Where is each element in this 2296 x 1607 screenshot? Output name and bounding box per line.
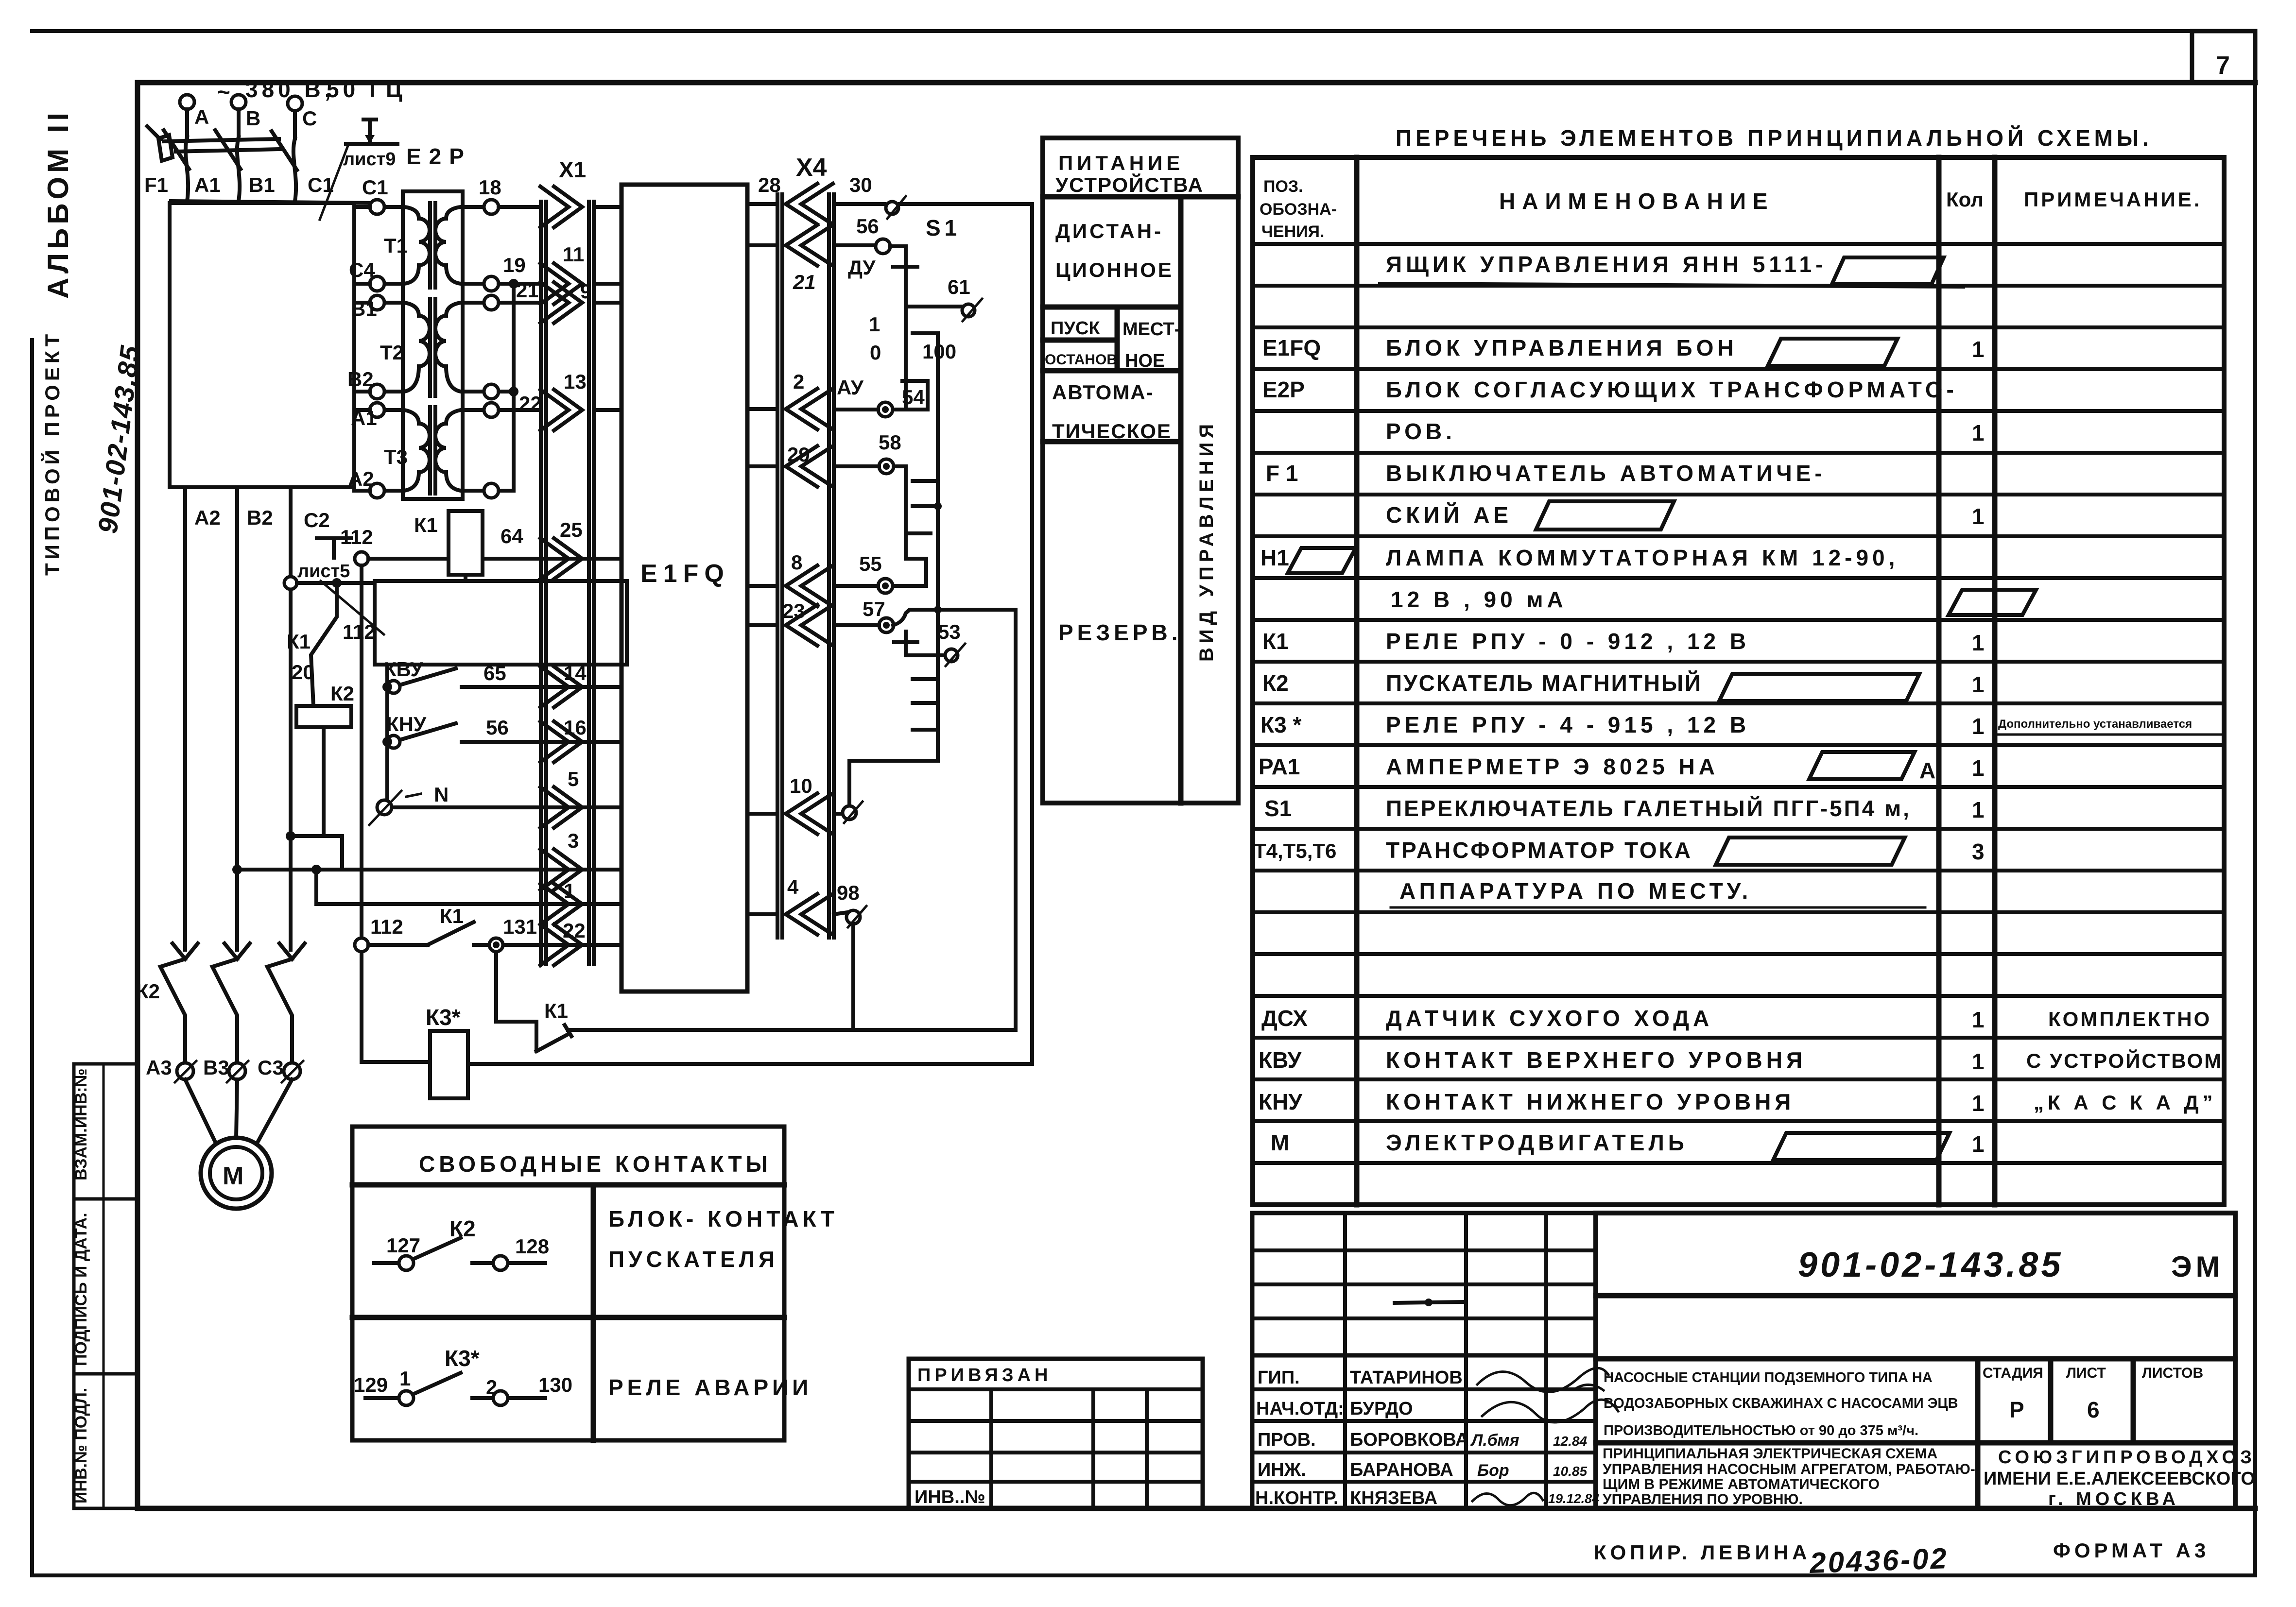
fuse C3 — [258, 1056, 303, 1082]
svg-text:ПЕРЕКЛЮЧАТЕЛЬ ГАЛЕТНЫЙ ПГГ-5: ПЕРЕКЛЮЧАТЕЛЬ ГАЛЕТНЫЙ ПГГ-5П4 м, — [1386, 796, 1911, 821]
revision table privyazan — [909, 1359, 1203, 1508]
row kvu — [1259, 1047, 2223, 1074]
contactor K2 pole B — [212, 943, 250, 1064]
svg-text:Т3: Т3 — [384, 445, 408, 468]
svg-text:КВУ: КВУ — [1259, 1047, 1302, 1073]
contactor K2 pole A — [160, 943, 198, 1064]
breaker F1 bar — [147, 126, 280, 161]
svg-text:г. МОСКВА: г. МОСКВА — [2048, 1489, 2179, 1509]
wire N — [369, 783, 594, 825]
svg-text:Кол: Кол — [1946, 188, 1984, 211]
wire AU contact — [834, 376, 928, 417]
svg-text:ОСТАНОВ: ОСТАНОВ — [1045, 352, 1117, 368]
svg-text:ПРОВ.: ПРОВ. — [1258, 1430, 1316, 1450]
terminal A — [180, 95, 209, 137]
node A1 — [351, 403, 384, 429]
svg-text:29: 29 — [787, 443, 810, 466]
svg-text:АЛЬБОМ II: АЛЬБОМ II — [42, 109, 74, 299]
svg-text:23: 23 — [782, 599, 805, 622]
node A2sec — [484, 483, 499, 498]
X4 pin arrow 23 — [747, 599, 833, 646]
row f1 line1 — [1266, 461, 1826, 486]
X4 pin arrow 8 — [747, 551, 833, 606]
svg-text:А2: А2 — [348, 467, 374, 490]
wire A2out feed — [354, 489, 370, 493]
svg-text:64: 64 — [501, 525, 523, 547]
contact K1 bottom — [496, 999, 1016, 1051]
svg-text:8: 8 — [791, 551, 802, 574]
svg-text:КНЯЗЕВА: КНЯЗЕВА — [1350, 1488, 1437, 1508]
stamp box Inv.N podl — [72, 1374, 138, 1508]
row s1 — [1264, 796, 1985, 822]
X1 pin arrow 18row — [540, 187, 621, 227]
svg-text:К2: К2 — [330, 682, 354, 705]
perechen header texts — [1260, 177, 2202, 241]
svg-text:ИНВ.№ ПОДЛ.: ИНВ.№ ПОДЛ. — [72, 1388, 90, 1504]
svg-text:БЛОК УПРАВЛЕНИЯ БОН: БЛОК УПРАВЛЕНИЯ БОН — [1386, 335, 1738, 360]
svg-text:Т4,Т5,Т6: Т4,Т5,Т6 — [1254, 839, 1336, 862]
svg-text:В1: В1 — [249, 173, 275, 196]
svg-text:ВЫКЛЮЧАТЕЛЬ АВТОМАТИЧЕ-: ВЫКЛЮЧАТЕЛЬ АВТОМАТИЧЕ- — [1386, 461, 1826, 486]
X4 pin arrow 29 — [747, 443, 833, 487]
svg-text:ДСХ: ДСХ — [1261, 1006, 1308, 1031]
svg-text:КОНТАКТ ВЕРХНЕГО УРОВНЯ: КОНТАКТ ВЕРХНЕГО УРОВНЯ — [1386, 1047, 1806, 1073]
svg-text:1: 1 — [1972, 337, 1985, 362]
svg-text:К3 *: К3 * — [1260, 712, 1301, 737]
X4 pin arrow 2 — [747, 370, 833, 429]
svg-text:ТАТАРИНОВ: ТАТАРИНОВ — [1350, 1368, 1463, 1388]
row apparatura — [1391, 878, 1925, 912]
svg-text:ЦИОННОЕ: ЦИОННОЕ — [1055, 258, 1174, 281]
X1 pin arrow 25 — [540, 518, 621, 579]
svg-text:ОБОЗНА-: ОБОЗНА- — [1260, 200, 1337, 219]
wire K2 coil to C2 — [291, 727, 342, 870]
stamp box Podpis i data — [72, 1199, 138, 1374]
fuse B3 — [203, 1056, 248, 1082]
svg-text:ВОДОЗАБОРНЫХ СКВАЖИНАХ С НАСОС: ВОДОЗАБОРНЫХ СКВАЖИНАХ С НАСОСАМИ ЭЦВ — [1604, 1396, 1958, 1411]
svg-text:19.12.84: 19.12.84 — [1548, 1491, 1599, 1506]
svg-text:С УСТРОЙСТВОМ: С УСТРОЙСТВОМ — [2026, 1049, 2223, 1072]
X4 pin arrow 4 — [747, 875, 833, 935]
motor M — [201, 1138, 272, 1209]
contact KNU wire 56 — [382, 713, 594, 748]
svg-text:11: 11 — [563, 243, 584, 266]
svg-text:БЛОК- КОНТАКТ: БЛОК- КОНТАКТ — [608, 1206, 838, 1231]
svg-text:Н.КОНТР.: Н.КОНТР. — [1255, 1488, 1339, 1508]
relay coil K1 — [414, 511, 483, 575]
svg-text:ЛАМПА КОММУТАТОРНАЯ КМ 12-90: ЛАМПА КОММУТАТОРНАЯ КМ 12-90, — [1386, 545, 1899, 570]
svg-text:КОМПЛЕКТНО: КОМПЛЕКТНО — [2048, 1008, 2211, 1030]
svg-text:20: 20 — [292, 661, 314, 684]
titleblock signature rows — [1252, 1355, 1599, 1508]
svg-text:ЭМ: ЭМ — [2171, 1250, 2224, 1283]
svg-text:„К А С К А Д”: „К А С К А Д” — [2034, 1091, 2217, 1114]
X1 pin arrow 16 — [540, 716, 621, 762]
svg-text:7: 7 — [2216, 51, 2230, 80]
svg-text:Н1: Н1 — [1260, 545, 1289, 570]
contact K1 20 — [287, 583, 337, 706]
wire 1 row — [316, 870, 594, 904]
list5 mark — [297, 538, 384, 634]
motor leads — [185, 1079, 292, 1144]
svg-text:Х1: Х1 — [559, 157, 586, 182]
perechen grid — [1253, 157, 2224, 1205]
svg-text:0: 0 — [870, 341, 881, 364]
svg-text:КНУ: КНУ — [386, 713, 427, 735]
svg-text:К2: К2 — [136, 980, 160, 1003]
node C4 — [349, 258, 384, 291]
svg-text:ЛИСТ: ЛИСТ — [2066, 1365, 2106, 1381]
svg-text:ЩИМ В РЕЖИМЕ АВТОМАТИЧЕСКОГО: ЩИМ В РЕЖИМЕ АВТОМАТИЧЕСКОГО — [1603, 1476, 1880, 1492]
svg-text:ИНВ..№: ИНВ..№ — [915, 1487, 985, 1507]
svg-text:Т1: Т1 — [384, 234, 408, 257]
svg-text:К1: К1 — [440, 905, 464, 927]
svg-text:СТАДИЯ: СТАДИЯ — [1983, 1365, 2043, 1381]
svg-text:9: 9 — [580, 280, 591, 303]
svg-text:25: 25 — [560, 518, 583, 541]
svg-text:В2: В2 — [247, 506, 273, 529]
wire C4 feed — [354, 282, 370, 286]
contact K2 127 128 — [374, 1216, 549, 1270]
svg-text:2: 2 — [793, 370, 804, 393]
svg-text:Т2: Т2 — [380, 341, 404, 364]
svg-text:А2: А2 — [194, 506, 221, 529]
row t456 — [1254, 838, 1985, 865]
wire 30 — [834, 173, 1032, 219]
svg-text:УСТРОЙСТВА: УСТРОЙСТВА — [1055, 173, 1204, 196]
svg-text:КНУ: КНУ — [1259, 1089, 1303, 1114]
svg-text:130: 130 — [538, 1373, 572, 1396]
row h1 line2 — [1391, 587, 2036, 615]
svg-text:Е2Р: Е2Р — [1262, 377, 1305, 402]
svg-text:ТИПОВОЙ ПРОЕКТ: ТИПОВОЙ ПРОЕКТ — [40, 330, 64, 576]
svg-text:ТИЧЕСКОЕ: ТИЧЕСКОЕ — [1052, 420, 1172, 443]
terminal B — [231, 95, 260, 137]
node A2out — [348, 467, 384, 498]
svg-text:ПУСКАТЕЛЬ МАГНИТНЫЙ: ПУСКАТЕЛЬ МАГНИТНЫЙ — [1386, 670, 1702, 696]
X1 pin arrow 11 — [540, 243, 621, 304]
block list5 — [375, 581, 627, 665]
svg-text:4: 4 — [787, 875, 799, 898]
svg-text:98: 98 — [837, 881, 860, 904]
wire A2 link — [499, 489, 512, 493]
svg-text:5: 5 — [568, 768, 579, 790]
bracket 54 — [902, 381, 928, 409]
node B2 — [347, 368, 384, 399]
svg-text:С: С — [302, 107, 317, 130]
node A1sec — [484, 403, 499, 417]
X1 pin arrow 14 — [540, 662, 621, 707]
row e1fq — [1262, 335, 1985, 366]
svg-text:К1: К1 — [414, 513, 438, 536]
stamp box Vzam.inv.N — [72, 1064, 138, 1199]
svg-text:F1: F1 — [144, 173, 168, 196]
svg-text:ПРИМЕЧАНИЕ.: ПРИМЕЧАНИЕ. — [2024, 188, 2202, 211]
transformer T2 — [380, 299, 484, 396]
contact KVU wire 65 — [382, 658, 594, 693]
svg-text:50 ГЦ: 50 ГЦ — [327, 77, 406, 102]
ladder dash c — [913, 502, 942, 510]
svg-text:К1: К1 — [1262, 629, 1289, 654]
relay coil K3 — [426, 1005, 468, 1098]
svg-text:56: 56 — [856, 215, 879, 238]
wire loop return — [1014, 1029, 1018, 1030]
svg-text:53: 53 — [938, 620, 961, 643]
link secondary chain vertical — [512, 284, 516, 491]
svg-text:28: 28 — [758, 173, 781, 196]
svg-text:16: 16 — [564, 716, 587, 739]
row e2p line2 — [1386, 419, 1985, 445]
list9 mark — [320, 120, 397, 220]
svg-text:~: ~ — [217, 79, 230, 104]
node 98 — [834, 881, 866, 927]
wire 57 bus drop — [1014, 610, 1018, 1029]
svg-text:1: 1 — [1972, 1049, 1985, 1074]
pitanie table — [1043, 138, 1238, 803]
svg-text:РОВ.: РОВ. — [1386, 419, 1456, 444]
svg-text:1: 1 — [1972, 714, 1985, 739]
X1 pin arrow 22 — [540, 919, 621, 965]
svg-text:21: 21 — [793, 271, 816, 293]
row yashchik — [1380, 252, 1963, 287]
svg-text:В2: В2 — [347, 368, 374, 391]
svg-text:3: 3 — [1972, 839, 1985, 864]
svg-text:В: В — [246, 107, 260, 130]
svg-text:61: 61 — [948, 275, 970, 298]
svg-text:1: 1 — [1972, 1007, 1985, 1032]
svg-text:РЕЗЕРВ.: РЕЗЕРВ. — [1058, 620, 1182, 645]
svg-text:ЭЛЕКТРОДВИГАТЕЛЬ: ЭЛЕКТРОДВИГАТЕЛЬ — [1386, 1130, 1688, 1155]
transformer T3 — [384, 407, 484, 494]
svg-text:А: А — [1919, 758, 1935, 783]
svg-text:ДУ: ДУ — [848, 256, 876, 279]
wire C2 to block — [284, 577, 376, 643]
svg-text:ПРИВЯЗАН: ПРИВЯЗАН — [917, 1365, 1052, 1385]
ladder step — [849, 761, 938, 806]
wire C1 feed — [354, 205, 370, 209]
svg-text:С3: С3 — [258, 1056, 284, 1079]
ladder dash d — [909, 531, 931, 535]
svg-text:Л.бмя: Л.бмя — [1470, 1431, 1519, 1450]
svg-text:ПОДПИСЬ И ДАТА.: ПОДПИСЬ И ДАТА. — [72, 1213, 90, 1366]
svg-text:22: 22 — [563, 919, 586, 942]
svg-text:ПУСКАТЕЛЯ: ПУСКАТЕЛЯ — [608, 1247, 778, 1272]
contactor K2 pole C — [267, 943, 305, 1064]
X1 pin arrow 5 — [540, 768, 621, 828]
svg-text:РЕЛЕ РПУ - 4 - 915 , 12 В: РЕЛЕ РПУ - 4 - 915 , 12 В — [1386, 712, 1750, 737]
svg-text:Бор: Бор — [1477, 1461, 1509, 1480]
svg-text:СКИЙ АЕ: СКИЙ АЕ — [1386, 502, 1512, 528]
node B1 — [351, 295, 384, 320]
wire 3 row — [237, 868, 594, 872]
svg-text:ПУСК: ПУСК — [1051, 318, 1100, 339]
svg-text:К3*: К3* — [445, 1346, 480, 1371]
wire 57 contact — [834, 598, 1016, 633]
connector X1 rails — [541, 157, 594, 964]
row knu — [1259, 1089, 2217, 1116]
X4 pin arrow 28 — [747, 173, 833, 224]
svg-text:13: 13 — [564, 370, 587, 393]
wire B2 drop — [235, 487, 239, 950]
svg-text:128: 128 — [515, 1235, 549, 1258]
row k2 — [1262, 670, 1985, 701]
svg-text:УПРАВЛЕНИЯ ПО УРОВНЮ.: УПРАВЛЕНИЯ ПО УРОВНЮ. — [1603, 1491, 1803, 1507]
svg-text:МЕСТ-: МЕСТ- — [1122, 319, 1180, 340]
fuse A3 — [146, 1056, 196, 1082]
svg-text:58: 58 — [879, 431, 901, 454]
row f1 line2 — [1386, 501, 1985, 530]
row k3 — [1260, 712, 2221, 739]
X1 pin arrow 3 — [540, 829, 621, 890]
wire 58 contact — [834, 431, 926, 586]
svg-text:Е1FQ: Е1FQ — [640, 560, 730, 588]
block E2P — [403, 191, 463, 499]
contact K3 129 130 — [354, 1346, 572, 1405]
svg-text:НОЕ: НОЕ — [1125, 351, 1165, 371]
X1 pin arrow 13 — [540, 370, 621, 430]
row pa1 — [1259, 752, 1985, 783]
ladder dash b — [913, 479, 934, 483]
svg-text:3: 3 — [568, 829, 579, 852]
node 21sec — [484, 279, 539, 310]
svg-text:N: N — [434, 783, 449, 806]
svg-text:1: 1 — [399, 1367, 411, 1390]
row motor — [1271, 1130, 1985, 1160]
svg-text:ИМЕНИ Е.Е.АЛЕКСЕЕВСКОГО: ИМЕНИ Е.Е.АЛЕКСЕЕВСКОГО — [1984, 1469, 2255, 1489]
svg-text:1: 1 — [1972, 1131, 1985, 1157]
svg-text:СОЮЗГИПРОВОДХОЗ: СОЮЗГИПРОВОДХОЗ — [1998, 1447, 2256, 1468]
svg-text:ИНЖ.: ИНЖ. — [1258, 1460, 1306, 1480]
wire 22 link — [499, 390, 514, 393]
node 19 — [484, 254, 526, 291]
svg-text:10.85: 10.85 — [1553, 1464, 1587, 1479]
svg-text:С1: С1 — [362, 176, 388, 199]
wire 55 contact — [834, 552, 926, 593]
svg-text:F 1: F 1 — [1266, 461, 1298, 486]
svg-text:1: 1 — [564, 879, 575, 902]
svg-text:ЯЩИК УПРАВЛЕНИЯ ЯНН 5111-: ЯЩИК УПРАВЛЕНИЯ ЯНН 5111- — [1386, 252, 1827, 277]
svg-text:1: 1 — [1972, 1091, 1985, 1116]
svg-text:54: 54 — [902, 386, 925, 409]
wire 131 drop — [494, 952, 498, 1022]
svg-text:57: 57 — [863, 598, 885, 620]
svg-text:1: 1 — [1972, 420, 1985, 445]
K1 coil stub — [464, 575, 467, 581]
svg-text:Е1FQ: Е1FQ — [1262, 335, 1321, 360]
svg-text:ПЕРЕЧЕНЬ ЭЛЕМЕНТОВ ПРИНЦИПИА: ПЕРЕЧЕНЬ ЭЛЕМЕНТОВ ПРИНЦИПИАЛЬНОЙ СХЕМЫ. — [1396, 125, 2153, 151]
svg-text:ЧЕНИЯ.: ЧЕНИЯ. — [1261, 222, 1324, 241]
stadiya list listov — [1983, 1365, 2203, 1422]
node 18 — [479, 176, 501, 214]
ladder dash g — [913, 728, 934, 732]
label DU — [848, 256, 917, 279]
sheet description — [1603, 1446, 1975, 1507]
object description — [1604, 1370, 1958, 1438]
wire 19 to X1 — [499, 282, 541, 286]
wire B1 feed — [354, 301, 370, 305]
svg-text:РЕЛЕ РПУ - 0 - 912 , 12 В: РЕЛЕ РПУ - 0 - 912 , 12 В — [1386, 629, 1750, 654]
ladder rail — [936, 333, 940, 761]
svg-text:КОПИР. ЛЕВИНА: КОПИР. ЛЕВИНА — [1594, 1541, 1811, 1564]
wire to K3 coil — [362, 1062, 1032, 1064]
svg-text:К1: К1 — [287, 630, 311, 653]
bus under F1 — [171, 201, 377, 203]
titleblock main box — [1596, 1213, 2235, 1508]
svg-text:129: 129 — [354, 1373, 388, 1396]
svg-text:ЛИСТОВ: ЛИСТОВ — [2142, 1365, 2203, 1381]
svg-text:1: 1 — [1972, 755, 1985, 781]
wire 112 to K1 coil — [340, 526, 449, 565]
svg-text:лист5: лист5 — [297, 561, 350, 581]
svg-text:А: А — [194, 105, 209, 128]
svg-text:ПРИНЦИПИАЛЬНАЯ ЭЛЕКТРИЧЕСКАЯ С: ПРИНЦИПИАЛЬНАЯ ЭЛЕКТРИЧЕСКАЯ СХЕМА — [1603, 1446, 1937, 1462]
X1 pin arrow 9 — [540, 280, 621, 323]
big switchgear box — [170, 203, 354, 487]
svg-text:С4: С4 — [349, 258, 375, 281]
svg-text:65: 65 — [483, 662, 506, 684]
sheet number box 7 — [2192, 31, 2255, 83]
wire A1 feed — [354, 408, 370, 412]
svg-text:S1: S1 — [926, 215, 961, 240]
svg-text:10: 10 — [790, 774, 812, 797]
wire 18 to X1 — [499, 205, 541, 209]
svg-text:БОРОВКОВА: БОРОВКОВА — [1350, 1430, 1468, 1450]
node 53 — [894, 620, 965, 666]
node 22sec — [484, 384, 542, 415]
svg-text:112: 112 — [370, 915, 403, 938]
svg-text:6: 6 — [2087, 1397, 2100, 1422]
wire 112 131 contact K1 — [355, 905, 594, 952]
transformer T1 — [384, 203, 484, 288]
organization — [1984, 1447, 2256, 1509]
svg-text:18: 18 — [479, 176, 501, 199]
svg-text:КОНТАКТ НИЖНЕГО УРОВНЯ: КОНТАКТ НИЖНЕГО УРОВНЯ — [1386, 1089, 1795, 1114]
row e2p line1 — [1262, 377, 1958, 402]
svg-text:30: 30 — [849, 173, 872, 196]
wire 61 — [906, 275, 982, 321]
svg-text:НАИМЕНОВАНИЕ: НАИМЕНОВАНИЕ — [1499, 188, 1775, 214]
svg-text:УПРАВЛЕНИЯ НАСОСНЫМ АГРЕГАТОМ,: УПРАВЛЕНИЯ НАСОСНЫМ АГРЕГАТОМ, РАБОТАЮ- — [1603, 1461, 1975, 1477]
svg-text:ФОРМАТ А3: ФОРМАТ А3 — [2053, 1539, 2210, 1562]
svg-text:АМПЕРМЕТР Э 8025 НА: АМПЕРМЕТР Э 8025 НА — [1386, 754, 1719, 779]
breaker F1 poles — [164, 130, 189, 201]
svg-text:12 В , 90 мА: 12 В , 90 мА — [1391, 587, 1567, 612]
svg-text:ВЗАМ.ИНВ:№: ВЗАМ.ИНВ:№ — [72, 1069, 90, 1181]
svg-text:ВИД УПРАВЛЕНИЯ: ВИД УПРАВЛЕНИЯ — [1196, 420, 1217, 662]
svg-text:НАСОСНЫЕ СТАНЦИИ ПОДЗЕМНОГО ТИ: НАСОСНЫЕ СТАНЦИИ ПОДЗЕМНОГО ТИПА НА — [1604, 1370, 1933, 1385]
svg-text:ДАТЧИК СУХОГО ХОДА: ДАТЧИК СУХОГО ХОДА — [1386, 1006, 1713, 1031]
svg-text:ПРОИЗВОДИТЕЛЬНОСТЬЮ от 90 до 3: ПРОИЗВОДИТЕЛЬНОСТЬЮ от 90 до 375 м³/ч. — [1604, 1423, 1918, 1438]
svg-text:РА1: РА1 — [1259, 754, 1300, 779]
wire 56 contact — [834, 215, 906, 407]
node C1 — [362, 176, 388, 214]
svg-text:НАЧ.ОТД:: НАЧ.ОТД: — [1256, 1399, 1344, 1419]
X4 pin arrow 10 — [747, 774, 833, 834]
svg-text:Х4: Х4 — [796, 154, 827, 182]
svg-text:56: 56 — [486, 716, 509, 739]
signature scrawls — [1477, 1368, 1618, 1422]
svg-text:СВОБОДНЫЕ КОНТАКТЫ: СВОБОДНЫЕ КОНТАКТЫ — [419, 1151, 772, 1177]
svg-text:131: 131 — [503, 915, 537, 938]
wire 64 — [483, 525, 594, 559]
svg-text:РЕЛЕ АВАРИИ: РЕЛЕ АВАРИИ — [608, 1375, 812, 1400]
wire right bus — [1030, 204, 1034, 1064]
svg-text:901-02-143.85: 901-02-143.85 — [1798, 1246, 2063, 1284]
svg-text:БЛОК СОГЛАСУЮЩИХ ТРАНСФОРМАТ: БЛОК СОГЛАСУЮЩИХ ТРАНСФОРМАТО- — [1386, 377, 1958, 402]
svg-text:19: 19 — [503, 254, 526, 276]
ladder dash a — [913, 331, 938, 335]
svg-text:ПОЗ.: ПОЗ. — [1263, 177, 1303, 196]
